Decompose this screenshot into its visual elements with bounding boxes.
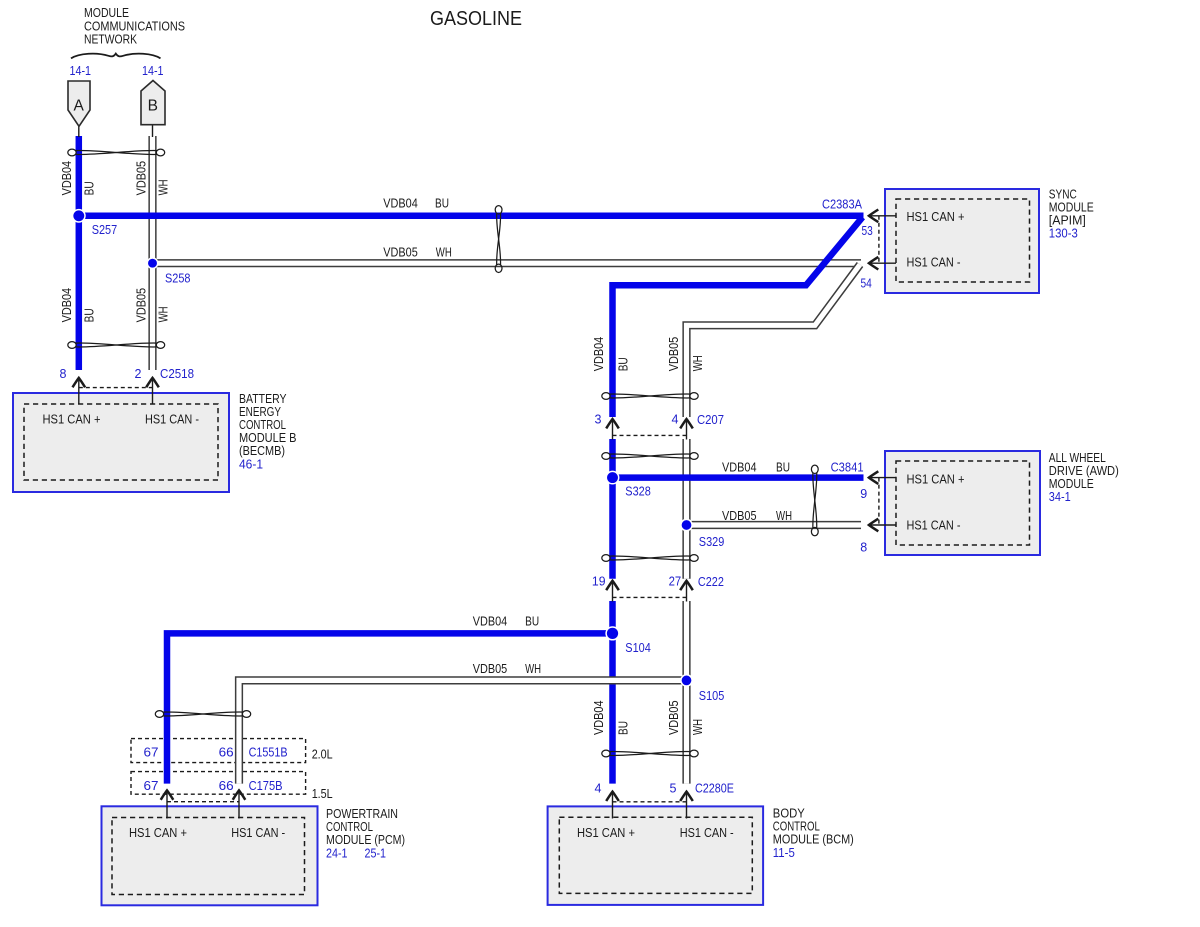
svg-text:C2518: C2518 [160,367,194,381]
splice S105 [681,675,692,686]
twisted pair above C2518 [68,342,165,349]
pin arrow C3841 pin 9 [869,471,896,484]
svg-text:S329: S329 [699,535,725,549]
wire VDB04 BU from connector A down to C2518 pin 8 [76,136,83,370]
twisted pair above C1551B [155,711,250,718]
svg-text:HS1 CAN +: HS1 CAN + [43,412,101,426]
svg-text:11-5: 11-5 [773,846,795,860]
module AWD box [885,451,1040,555]
svg-text:MODULE (BCM): MODULE (BCM) [773,833,854,847]
svg-text:C222: C222 [698,575,724,589]
svg-text:66: 66 [219,745,234,759]
svg-text:MODULE (PCM): MODULE (PCM) [326,833,405,847]
svg-text:MODULE: MODULE [1049,477,1094,491]
pin arrow C222 pin 27 [680,581,693,602]
svg-text:VDB04: VDB04 [383,197,418,211]
svg-text:C207: C207 [697,413,724,427]
svg-text:54: 54 [861,277,872,291]
pin arrow C2383A pin 53 [869,210,896,223]
svg-text:MODULE: MODULE [1049,201,1094,215]
twisted pair above C2280E [602,750,698,757]
svg-text:67: 67 [144,745,159,759]
wire VDB04 BU S328 to C3841 pin 9 [613,474,864,481]
module BCM box [548,806,764,905]
connector A lead-in stub [78,125,80,137]
svg-text:WH: WH [436,245,452,259]
connector C2383A dashed link [878,216,880,263]
wire VDB05 WH S329 to C3841 pin 8 [687,521,862,529]
pin arrow C207 pin 4 [680,419,693,440]
svg-text:46-1: 46-1 [239,458,263,472]
svg-text:HS1 CAN -: HS1 CAN - [231,826,285,840]
svg-text:BU: BU [525,615,539,629]
svg-text:[APIM]: [APIM] [1049,214,1086,228]
svg-text:BU: BU [776,460,790,474]
twisted pair on AWD branch pair [811,465,818,536]
svg-text:CONTROL: CONTROL [326,820,373,834]
module SYNC/APIM box [885,189,1039,293]
module PCM box [102,806,318,905]
svg-text:WH: WH [691,719,705,735]
svg-text:VDB05: VDB05 [722,509,757,523]
svg-text:VDB05: VDB05 [383,245,418,259]
pin arrow PCM pin 67 [161,790,174,818]
svg-text:POWERTRAIN: POWERTRAIN [326,807,398,821]
connector C2280E dashed link [613,801,687,803]
module BECMB box [13,393,229,492]
svg-text:5: 5 [670,782,677,796]
twisted pair on bus pair near x=499 [495,206,502,273]
svg-text:CONTROL: CONTROL [239,418,286,432]
connector box C175B (1.5L) [131,772,306,795]
splice S328 [606,471,618,483]
svg-text:HS1 CAN -: HS1 CAN - [145,412,199,426]
svg-text:NETWORK: NETWORK [84,33,138,47]
wire VDB05 WH S105 branch to PCM pin 66 [239,680,687,783]
svg-text:VDB04: VDB04 [60,161,74,196]
pin arrow C222 pin 19 [606,581,619,602]
svg-text:HS1 CAN -: HS1 CAN - [907,255,961,269]
connector C222 dashed link [613,596,687,598]
svg-text:8: 8 [60,367,67,381]
svg-text:HS1 CAN +: HS1 CAN + [129,826,187,840]
svg-text:8: 8 [860,541,867,555]
svg-text:BATTERY: BATTERY [239,392,287,406]
svg-text:BU: BU [83,181,97,195]
wire VDB05 WH middle vertical C207 to C222 [682,439,690,579]
svg-text:C3841: C3841 [831,460,864,474]
connector B symbol [141,81,165,125]
svg-text:C1551B: C1551B [249,745,288,759]
svg-text:WH: WH [776,509,792,523]
wire VDB04 BU middle vertical C222 to C2280E pin 4 [609,601,616,784]
pin arrow C3841 pin 8 [869,519,896,532]
wire VDB05 WH bus S258 to C2383A pin 54 [153,259,862,267]
pin arrow C2383A pin 54 [869,257,896,270]
splice S329 [681,519,692,530]
svg-text:66: 66 [219,779,234,793]
connector C3841 dashed link [878,478,880,525]
pin arrow C2518 pin 2 [146,378,159,404]
svg-text:S328: S328 [625,484,651,498]
svg-text:2.0L: 2.0L [312,747,333,761]
svg-text:C175B: C175B [249,779,283,793]
svg-text:CONTROL: CONTROL [773,820,820,834]
svg-text:67: 67 [144,779,159,793]
svg-text:C2280E: C2280E [695,782,734,796]
wire VDB04 BU S104 branch to PCM pin 67 [167,633,613,783]
svg-text:(BECMB): (BECMB) [239,444,285,458]
svg-text:9: 9 [860,487,867,501]
svg-text:VDB04: VDB04 [722,460,757,474]
svg-text:BU: BU [83,308,97,322]
svg-text:WH: WH [691,355,705,371]
svg-text:HS1 CAN +: HS1 CAN + [907,210,965,224]
twisted pair above C222 [602,555,698,562]
svg-text:MODULE: MODULE [84,6,129,20]
pin arrow C2280E pin 4 [606,792,619,819]
svg-text:COMMUNICATIONS: COMMUNICATIONS [84,19,185,33]
svg-text:GASOLINE: GASOLINE [430,7,522,30]
svg-text:25-1: 25-1 [365,847,387,861]
wire VDB04 BU bus S257 to C2383A pin 53 [79,213,864,220]
svg-text:ENERGY: ENERGY [239,405,282,419]
svg-text:ALL WHEEL: ALL WHEEL [1049,451,1106,465]
svg-text:S104: S104 [625,641,651,655]
wire VDB05 WH diagonal from C2383A down-left then to middle vertical [687,265,861,418]
svg-text:VDB05: VDB05 [473,662,508,676]
svg-text:4: 4 [672,413,679,427]
svg-text:3: 3 [595,413,602,427]
svg-text:VDB05: VDB05 [667,337,681,372]
svg-text:14-1: 14-1 [70,64,92,78]
pin arrow C207 pin 3 [606,419,619,440]
svg-text:DRIVE (AWD): DRIVE (AWD) [1049,464,1119,478]
wire VDB04 BU diagonal from C2383A down-left then to middle vertical [613,217,863,417]
svg-text:VDB05: VDB05 [667,700,681,735]
svg-text:WH: WH [157,306,171,322]
svg-text:VDB04: VDB04 [60,288,74,323]
twisted pair below C207 [602,453,698,460]
svg-text:B: B [148,98,158,115]
svg-text:VDB05: VDB05 [135,161,149,196]
connector B lead-in stub [152,124,154,137]
svg-text:BU: BU [435,197,449,211]
svg-text:53: 53 [862,224,873,238]
twisted pair above C207 [602,393,698,400]
twisted pair below connectors A and B [68,149,165,156]
svg-text:VDB04: VDB04 [592,337,606,372]
svg-text:24-1: 24-1 [326,847,348,861]
connector box C1551B (2.0L) [131,739,306,763]
svg-text:27: 27 [669,575,682,589]
svg-text:BU: BU [616,721,630,735]
svg-text:SYNC: SYNC [1049,188,1077,202]
svg-text:14-1: 14-1 [142,64,164,78]
svg-text:130-3: 130-3 [1049,227,1078,241]
connector C175B dashed link [167,801,239,803]
pin arrow PCM pin 66 [233,790,246,818]
pin arrow C2280E pin 5 [680,792,693,819]
svg-text:S257: S257 [92,223,118,237]
wire VDB05 WH middle vertical C222 to C2280E pin 5 [682,601,690,784]
svg-text:S105: S105 [699,689,725,703]
wire VDB04 BU middle vertical C207 to C222 [609,439,616,579]
svg-text:VDB05: VDB05 [135,288,149,323]
svg-text:HS1 CAN +: HS1 CAN + [577,826,635,840]
svg-text:1.5L: 1.5L [312,787,333,801]
svg-text:19: 19 [592,575,606,589]
svg-text:BODY: BODY [773,807,806,821]
svg-text:HS1 CAN -: HS1 CAN - [907,518,961,532]
connector C2518 dashed link [79,387,153,389]
svg-text:2: 2 [135,367,142,381]
svg-text:VDB04: VDB04 [592,700,606,735]
svg-text:HS1 CAN +: HS1 CAN + [907,473,965,487]
svg-text:MODULE B: MODULE B [239,431,297,445]
pin arrow C2518 pin 8 [73,378,86,404]
wire VDB05 WH from connector B down to C2518 pin 2 [148,136,156,370]
svg-text:A: A [74,98,85,115]
svg-text:S258: S258 [165,272,191,286]
svg-text:HS1 CAN -: HS1 CAN - [680,826,734,840]
connector A symbol [68,81,90,126]
connector C207 dashed link [613,434,687,436]
svg-text:BU: BU [616,357,630,371]
svg-text:VDB04: VDB04 [473,615,508,629]
svg-text:34-1: 34-1 [1049,490,1071,504]
splice S104 [606,627,619,640]
svg-text:WH: WH [525,662,541,676]
svg-text:WH: WH [157,179,171,195]
svg-text:4: 4 [595,782,602,796]
splice S258 [147,258,157,268]
brace over connectors A and B [71,54,161,59]
svg-text:C2383A: C2383A [822,198,863,212]
splice S257 [73,210,85,222]
